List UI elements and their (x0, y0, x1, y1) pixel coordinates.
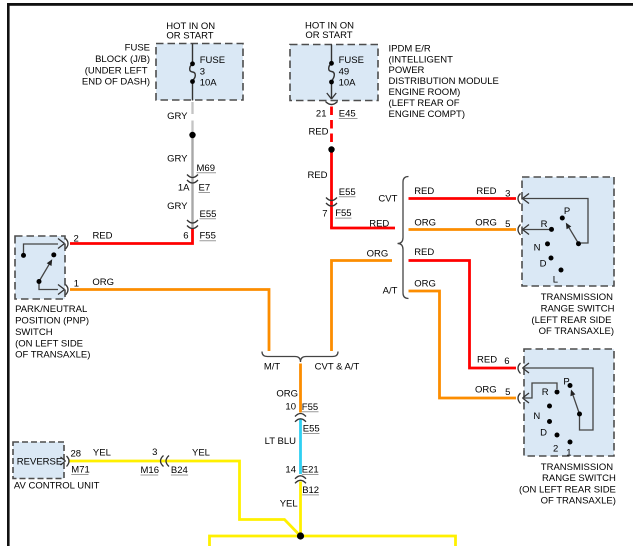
svg-text:6: 6 (183, 231, 188, 242)
svg-text:N: N (533, 411, 540, 422)
svg-text:3: 3 (505, 189, 510, 200)
svg-text:FUSE: FUSE (125, 43, 150, 54)
svg-text:RANGE SWITCH: RANGE SWITCH (542, 473, 616, 484)
svg-text:M69: M69 (197, 163, 215, 174)
svg-text:SWITCH: SWITCH (15, 327, 53, 338)
svg-text:10A: 10A (339, 78, 357, 89)
svg-text:REVERSE: REVERSE (17, 456, 62, 467)
svg-text:OF TRANSAXLE): OF TRANSAXLE) (541, 496, 616, 507)
svg-text:49: 49 (339, 67, 350, 78)
svg-text:N: N (534, 243, 541, 254)
svg-text:TRANSMISSION: TRANSMISSION (541, 292, 613, 303)
svg-text:OR START: OR START (305, 30, 352, 41)
svg-text:ENGINE COMPT): ENGINE COMPT) (389, 109, 466, 120)
svg-text:ORG: ORG (414, 218, 436, 229)
svg-text:7: 7 (322, 209, 327, 220)
svg-text:(ON LEFT SIDE: (ON LEFT SIDE (15, 338, 83, 349)
svg-text:RED: RED (477, 354, 497, 365)
svg-text:YEL: YEL (93, 448, 111, 459)
svg-text:TRANSMISSION: TRANSMISSION (541, 462, 613, 473)
svg-text:E55: E55 (339, 187, 356, 198)
svg-text:BLOCK (J/B): BLOCK (J/B) (95, 54, 150, 65)
svg-text:F55: F55 (200, 231, 216, 242)
svg-text:ENGINE ROOM): ENGINE ROOM) (389, 87, 461, 98)
svg-text:DISTRIBUTION MODULE: DISTRIBUTION MODULE (389, 76, 499, 87)
svg-text:M16: M16 (141, 465, 159, 476)
svg-text:D: D (540, 259, 547, 270)
svg-text:RED: RED (308, 127, 328, 138)
svg-text:END OF DASH): END OF DASH) (82, 77, 150, 88)
svg-text:OR START: OR START (166, 30, 213, 41)
svg-text:RED: RED (92, 230, 112, 241)
svg-text:RED: RED (414, 247, 434, 258)
svg-text:3: 3 (200, 66, 205, 77)
svg-text:E7: E7 (199, 183, 211, 194)
svg-text:RED: RED (369, 218, 389, 229)
svg-text:FUSE: FUSE (200, 55, 225, 66)
svg-text:E21: E21 (302, 465, 319, 476)
svg-text:1A: 1A (178, 183, 190, 194)
svg-text:6: 6 (504, 356, 509, 367)
svg-text:(ON LEFT REAR SIDE: (ON LEFT REAR SIDE (519, 484, 616, 495)
svg-text:B24: B24 (171, 465, 188, 476)
svg-text:10A: 10A (200, 78, 218, 89)
svg-text:POSITION (PNP): POSITION (PNP) (15, 316, 89, 327)
svg-text:F55: F55 (302, 402, 318, 413)
svg-text:1: 1 (566, 448, 571, 459)
svg-text:OF TRANSAXLE): OF TRANSAXLE) (15, 350, 90, 361)
svg-text:5: 5 (505, 219, 510, 230)
svg-text:R: R (542, 387, 549, 398)
svg-text:ORG: ORG (475, 385, 497, 396)
svg-text:R: R (541, 219, 548, 230)
svg-text:RED: RED (307, 170, 327, 181)
svg-text:E55: E55 (303, 424, 320, 435)
svg-text:GRY: GRY (167, 201, 188, 212)
svg-text:F55: F55 (335, 208, 351, 219)
svg-text:LT BLU: LT BLU (265, 436, 296, 447)
svg-text:RED: RED (476, 186, 496, 197)
svg-text:ORG: ORG (276, 388, 298, 399)
svg-text:M71: M71 (71, 465, 89, 476)
svg-text:(UNDER LEFT: (UNDER LEFT (85, 65, 148, 76)
svg-text:RED: RED (414, 186, 434, 197)
svg-text:L: L (553, 275, 558, 286)
svg-text:5: 5 (505, 387, 510, 398)
svg-text:B12: B12 (302, 485, 319, 496)
svg-text:YEL: YEL (280, 499, 298, 510)
svg-text:E55: E55 (200, 209, 217, 220)
svg-text:(LEFT REAR OF: (LEFT REAR OF (389, 98, 460, 109)
svg-text:2: 2 (553, 444, 558, 455)
svg-text:OF TRANSAXLE): OF TRANSAXLE) (539, 326, 614, 337)
svg-text:FUSE: FUSE (339, 55, 364, 66)
svg-text:GRY: GRY (167, 154, 188, 165)
svg-text:CVT & A/T: CVT & A/T (315, 361, 360, 372)
svg-text:IPDM E/R: IPDM E/R (389, 43, 431, 54)
svg-text:2: 2 (74, 234, 79, 245)
svg-text:3: 3 (152, 447, 157, 458)
svg-text:28: 28 (71, 449, 82, 460)
svg-text:ORG: ORG (367, 249, 389, 260)
svg-text:PARK/NEUTRAL: PARK/NEUTRAL (15, 304, 87, 315)
svg-text:A/T: A/T (383, 286, 398, 297)
svg-text:ORG: ORG (414, 279, 436, 290)
svg-text:GRY: GRY (167, 111, 188, 122)
svg-text:P: P (564, 206, 570, 217)
svg-text:D: D (540, 428, 547, 439)
svg-text:10: 10 (285, 402, 296, 413)
svg-text:21: 21 (316, 109, 327, 120)
svg-text:POWER: POWER (389, 65, 425, 76)
svg-text:CVT: CVT (378, 194, 397, 205)
svg-text:YEL: YEL (192, 447, 210, 458)
svg-text:ORG: ORG (475, 218, 497, 229)
svg-text:1: 1 (74, 278, 79, 289)
svg-text:14: 14 (285, 464, 296, 475)
svg-text:(LEFT REAR SIDE: (LEFT REAR SIDE (531, 315, 611, 326)
svg-text:ORG: ORG (92, 277, 114, 288)
svg-text:M/T: M/T (264, 361, 281, 372)
svg-text:(INTELLIGENT: (INTELLIGENT (389, 54, 454, 65)
svg-text:P: P (563, 377, 569, 388)
svg-text:E45: E45 (339, 109, 356, 120)
svg-text:AV CONTROL UNIT: AV CONTROL UNIT (14, 480, 100, 491)
svg-text:RANGE SWITCH: RANGE SWITCH (541, 304, 615, 315)
